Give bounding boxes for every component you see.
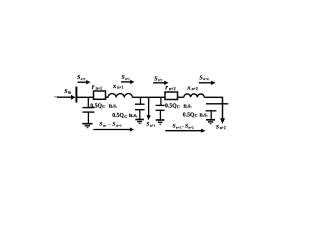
svg-text:0.5Q: 0.5Q — [90, 103, 102, 109]
svg-text:n+2: n+2 — [220, 126, 226, 130]
svg-text:n+1: n+1 — [81, 77, 86, 81]
svg-text:n+2: n+2 — [203, 77, 209, 81]
svg-text:C: C — [195, 114, 198, 118]
svg-text:n+1: n+1 — [117, 86, 123, 90]
svg-text:0.5Q: 0.5Q — [112, 113, 124, 119]
svg-text:n+2: n+2 — [169, 86, 176, 91]
svg-text:C: C — [102, 105, 105, 109]
svg-text:n+1: n+1 — [125, 78, 130, 81]
svg-text:n.s.: n.s. — [200, 112, 209, 118]
svg-text:m: m — [68, 91, 72, 95]
svg-text:n+1: n+1 — [116, 123, 122, 127]
svg-text:S: S — [216, 124, 219, 130]
svg-text:n.s.: n.s. — [109, 103, 118, 109]
svg-text:n.s.: n.s. — [184, 103, 193, 109]
svg-text:0.5Q: 0.5Q — [183, 112, 195, 118]
svg-text:C: C — [177, 105, 180, 109]
svg-text:-: - — [109, 122, 111, 128]
svg-text:n+1: n+1 — [96, 85, 103, 90]
svg-text:S: S — [112, 122, 115, 128]
svg-text:r: r — [165, 84, 168, 92]
svg-text:n+2: n+2 — [192, 87, 198, 91]
svg-text:n.s.: n.s. — [129, 113, 138, 119]
svg-text:n+1: n+1 — [150, 123, 156, 127]
svg-text:n+1: n+1 — [176, 125, 182, 129]
svg-text:m: m — [103, 123, 106, 127]
svg-text:0.5Q: 0.5Q — [165, 103, 177, 109]
svg-text:C: C — [124, 115, 127, 119]
svg-text:-: - — [182, 124, 184, 130]
svg-text:n+2: n+2 — [188, 125, 194, 129]
svg-text:r: r — [92, 83, 95, 91]
svg-text:S: S — [99, 122, 102, 128]
svg-text:n+1: n+1 — [158, 79, 163, 82]
